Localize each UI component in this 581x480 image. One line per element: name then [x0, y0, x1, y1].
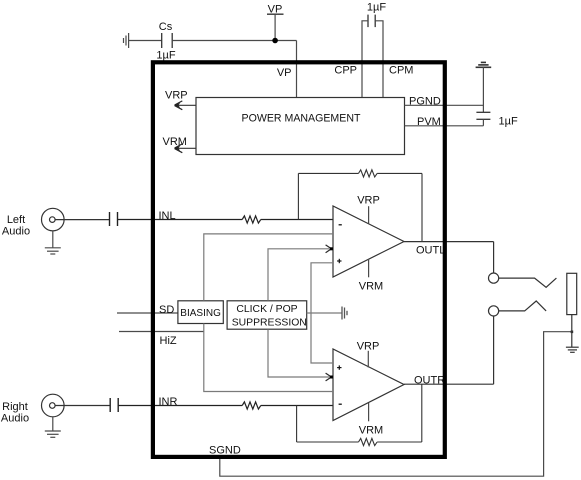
svg-text:OUTL: OUTL: [416, 245, 445, 257]
supply stub VRM (U2): [359, 403, 383, 436]
ground (jack sleeve): [566, 347, 579, 352]
IC boundary box: [153, 62, 445, 457]
resistor (INR input): [242, 402, 261, 409]
svg-text:CPP: CPP: [334, 65, 357, 77]
wire SD: [117, 312, 178, 314]
wire Right Audio to input cap: [55, 405, 110, 407]
block CLICK / POP SUPPRESSION: [227, 301, 307, 329]
svg-text:HiZ: HiZ: [160, 335, 177, 347]
supply stub VRP (U1): [357, 195, 380, 224]
feedback wire top right: [377, 172, 422, 174]
wire ground to Cs: [129, 40, 162, 42]
svg-text:VRP: VRP: [357, 195, 380, 207]
wire OUTR: [404, 383, 494, 385]
feedback wire bottom right: [377, 441, 422, 443]
feedback loop U2: right vertical: [421, 384, 423, 442]
wire reference vertical (to both + inputs): [311, 263, 333, 363]
block POWER MANAGEMENT: [196, 98, 405, 155]
resistor (U2 feedback): [359, 438, 378, 445]
svg-text:SD: SD: [159, 304, 174, 316]
block BIASING: [178, 301, 223, 324]
jack tip contact circle: [489, 273, 499, 283]
svg-text:INL: INL: [159, 210, 176, 222]
feedback loop U1: left vertical: [297, 173, 299, 219]
wire PGND to ground and cap: [482, 67, 484, 112]
feedback loop U2: left vertical: [296, 406, 298, 443]
jack sleeve body: [567, 273, 577, 314]
wire clickpop top stub with arrow: [268, 249, 330, 301]
ground (Right Audio source): [45, 417, 61, 438]
wire Left Audio to input cap: [55, 219, 109, 221]
source Right Audio: [1, 394, 64, 424]
arrowhead into U2: [326, 373, 332, 381]
ground (sideways, left of Cs): [124, 33, 129, 48]
ground (sideways, right of clickpop): [342, 307, 347, 320]
svg-text:SGND: SGND: [209, 445, 241, 457]
wire HiZ: [119, 331, 204, 333]
op-amp U1 (left channel): [333, 206, 404, 277]
supply stub VRM (U1): [359, 259, 383, 292]
capacitor Cs: [162, 33, 173, 48]
svg-text:1µF: 1µF: [367, 2, 386, 14]
wire CPP lead: [362, 21, 368, 98]
wire OUTL: [404, 241, 494, 243]
svg-text:Audio: Audio: [1, 413, 29, 425]
pin PVM wire: [405, 125, 484, 127]
wire biasing bottom stub: [204, 324, 333, 392]
source Left Audio: [2, 208, 64, 237]
feedback loop U1: right vertical: [421, 173, 423, 241]
output arrow VRM: [163, 136, 197, 153]
svg-text:PVM: PVM: [417, 116, 441, 128]
svg-text:Right: Right: [2, 401, 28, 413]
svg-text:POWER MANAGEMENT: POWER MANAGEMENT: [242, 113, 361, 125]
svg-text:VRM: VRM: [359, 424, 383, 436]
wire OUTR to jack ring: [493, 316, 495, 384]
wire cap to PVM: [482, 119, 484, 126]
wire resistor to op-amp U1 inverting input: [261, 219, 333, 221]
supply stub VRP (U2): [357, 341, 380, 368]
pin PGND wire: [405, 104, 484, 106]
jack tip switch: [499, 278, 557, 287]
svg-text:VRM: VRM: [359, 280, 383, 292]
wire cap to INL resistor: [118, 219, 243, 221]
wire cap to INR resistor: [118, 405, 242, 407]
svg-text:1µF: 1µF: [499, 116, 518, 128]
capacitor 1uF (PGND-PVM): [476, 112, 490, 119]
feedback wire bottom left: [297, 441, 359, 443]
wire SGND: [220, 332, 572, 477]
junction node VP: [272, 38, 278, 44]
wire resistor to op-amp U2 inverting input: [261, 405, 333, 407]
arrowhead into U1: [326, 245, 332, 253]
output arrow VRP: [165, 89, 196, 109]
resistor (INL input): [242, 216, 261, 223]
op-amp U2 (right channel): [333, 349, 404, 421]
jack ring contact circle: [489, 306, 499, 316]
junction SGND-sleeve: [571, 331, 574, 334]
capacitor (right input coupling): [110, 398, 118, 412]
capacitor (left input coupling): [110, 212, 118, 226]
feedback wire top left: [298, 172, 358, 174]
svg-text:VRM: VRM: [163, 136, 187, 148]
svg-text:VP: VP: [277, 67, 292, 79]
wire sleeve to ground: [571, 315, 573, 348]
svg-text:BIASING: BIASING: [180, 308, 221, 319]
svg-text:SUPPRESSION: SUPPRESSION: [232, 317, 307, 328]
svg-text:1µF: 1µF: [156, 50, 175, 62]
svg-text:VRP: VRP: [165, 89, 188, 101]
wire biasing top stub: [204, 234, 333, 301]
svg-text:PGND: PGND: [409, 96, 441, 108]
ground (top right, pointing up): [476, 62, 492, 67]
wire VP node down to POWER MANAGEMENT: [296, 41, 298, 98]
svg-text:CLICK / POP: CLICK / POP: [236, 304, 297, 315]
ground (Left Audio source): [45, 231, 61, 254]
capacitor 1uF (flying cap CPP-CPM): [368, 15, 375, 28]
svg-text:Audio: Audio: [2, 226, 30, 238]
wire CPM lead: [375, 21, 383, 98]
svg-text:CPM: CPM: [389, 65, 413, 77]
svg-text:INR: INR: [159, 396, 178, 408]
wire Cs to VP node: [172, 40, 296, 42]
wire OUTL to jack tip: [493, 242, 495, 273]
wire clickpop reference to ground: [307, 312, 342, 314]
supply symbol VP: [267, 4, 284, 41]
wire clickpop bottom stub with arrow: [268, 329, 330, 377]
resistor (U1 feedback): [359, 170, 378, 177]
jack ring switch: [499, 301, 546, 311]
svg-text:OUTR: OUTR: [414, 375, 445, 387]
svg-text:Left: Left: [7, 214, 25, 226]
svg-text:Cs: Cs: [159, 21, 173, 33]
